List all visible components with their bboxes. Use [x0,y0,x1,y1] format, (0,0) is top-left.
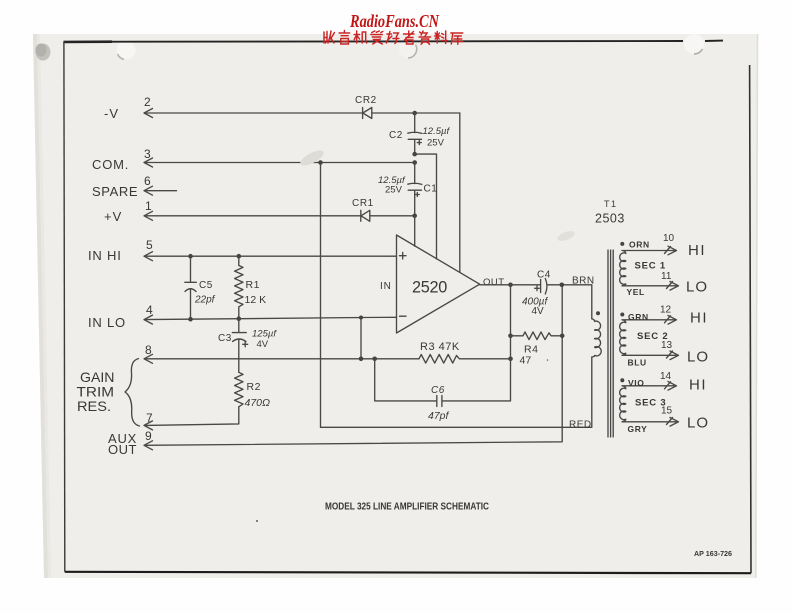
node AUX OUT terminal (pin 9) [108,429,153,457]
diode CR2 [355,95,377,119]
svg-text:AP 163-726: AP 163-726 [694,551,732,558]
wire SPARE stub [145,190,177,192]
svg-text:2503: 2503 [595,212,625,226]
node GAIN TRIM terminal (pin 8) [144,343,153,363]
watermark header Chinese subtitle (stylized strokes) [324,31,463,45]
smudge [298,147,326,168]
svg-text:C3: C3 [218,333,232,344]
junction C6 branch [372,357,377,362]
junction COM / down line [318,160,323,165]
svg-text:47pf: 47pf [428,410,450,422]
svg-text:HI: HI [688,242,706,259]
junction R4 left [508,334,513,339]
junction R3 / feedback vertical [508,357,513,362]
svg-text:-V: -V [104,106,119,121]
junction inverting node [359,357,364,362]
svg-text:COM.: COM. [92,157,129,172]
junction COM / C-stack [412,160,417,165]
op-amp U1 2520 [380,235,480,333]
svg-text:C4: C4 [537,270,551,281]
svg-text:+V: +V [104,209,122,224]
punch hole top-middle [399,40,417,58]
svg-text:CR2: CR2 [355,95,377,106]
svg-text:CR1: CR1 [352,198,374,209]
svg-text:C5: C5 [199,280,213,291]
svg-text:22pf: 22pf [194,295,216,306]
svg-text:12.5µf: 12.5µf [423,126,451,137]
junction IN LO / C5 [188,317,193,322]
resistor R4 [511,332,563,367]
svg-text:R1: R1 [246,279,260,291]
svg-text:GRN: GRN [628,312,649,322]
brace gain trim resistor [77,359,140,426]
wire COM rail [145,162,415,164]
svg-text:HI: HI [690,310,708,327]
border frame left [63,42,66,572]
transformer secondary SEC2 [620,305,709,368]
junction C4 / BRN / AUX [560,283,565,288]
svg-text:IN HI: IN HI [88,248,122,263]
svg-text:VIO: VIO [628,378,644,388]
svg-text:R3 47K: R3 47K [420,341,460,353]
svg-text:MODEL 325 LINE AMPLIFIER SCHEM: MODEL 325 LINE AMPLIFIER SCHEMATIC [325,502,489,513]
punch hole top-left [117,41,136,60]
svg-text:14: 14 [660,371,672,382]
transformer core [608,250,613,437]
node IN HI terminal (pin 5) [88,238,153,263]
svg-text:13: 13 [661,340,673,351]
capacitor C2 [389,113,450,154]
svg-text:C2: C2 [389,130,403,141]
svg-text:12: 12 [660,305,672,316]
border frame top [64,41,724,42]
node GAIN TRIM terminal (pin 7) [144,411,153,430]
svg-text:C1: C1 [424,184,438,195]
svg-text:11: 11 [661,271,672,282]
svg-text:C6: C6 [431,385,445,396]
wire RED return [321,357,592,427]
svg-text:LO: LO [687,349,709,366]
speck [256,520,258,522]
smudge [556,229,576,243]
wire +V feed to op-amp [414,216,416,246]
capacitor C4 [522,270,551,318]
svg-text:IN LO: IN LO [88,315,126,330]
junction IN LO / feedback [359,316,363,320]
junction C2 / COM branch [412,152,417,157]
svg-text:BRN: BRN [572,276,595,287]
resistor R3 [419,341,511,363]
svg-text:12 K: 12 K [245,294,267,306]
svg-text:BLU: BLU [628,358,647,368]
paper right edge [756,34,758,578]
svg-text:470Ω: 470Ω [245,397,271,409]
resistor R1 [235,256,267,319]
wire pin 7 to R2 [145,407,239,426]
watermark header RadioFans.CN [349,11,440,31]
svg-text:SPARE: SPARE [92,184,138,199]
svg-text:SEC 1: SEC 1 [635,261,666,272]
node -V terminal (pin 2) [104,95,153,121]
punch hole top-right [684,34,704,54]
svg-text:GRY: GRY [628,424,648,434]
capacitor C6 [375,359,511,422]
junction IN LO / R1 C3 [237,316,242,321]
svg-text:RED: RED [569,420,592,431]
border frame right [750,65,751,573]
wire feedback vertical [510,285,512,359]
svg-text:OUT: OUT [108,442,137,457]
svg-text:25V: 25V [427,138,445,149]
wire -V rail [145,112,460,114]
svg-text:2520: 2520 [412,279,447,297]
wire AUX OUT rail [145,285,562,446]
wire +V rail [145,215,415,217]
svg-text:T1: T1 [604,199,618,209]
transformer T1 2503 primary [592,319,601,357]
node IN LO terminal (pin 4) [88,303,153,330]
junction IN HI / R1 [237,254,242,259]
svg-text:R2: R2 [247,381,261,393]
svg-text:6: 6 [144,174,151,188]
speck [547,359,549,361]
polarity dot primary [596,311,600,315]
svg-text:2: 2 [144,95,151,109]
svg-text:47: 47 [520,355,532,367]
transformer secondary SEC3 [620,371,709,434]
svg-text:4V: 4V [532,306,545,317]
svg-text:15: 15 [661,406,673,417]
wire IN HI rail [145,255,397,257]
transformer secondary SEC1 [620,233,708,297]
wire feedback rail (pin 8) [145,358,419,360]
junction output / feedback [508,283,513,288]
junction R4 right [560,334,565,339]
wire COM vertical [320,163,322,428]
wire -V feed to op-amp [459,113,461,272]
node COM terminal (pin 3) [92,147,153,172]
junction IN HI / C5 [188,254,193,259]
svg-text:10: 10 [663,233,675,244]
svg-text:HI: HI [689,377,707,394]
svg-text:5: 5 [146,238,153,252]
svg-text:YEL: YEL [627,287,645,297]
svg-text:4V: 4V [257,339,269,350]
capacitor C1 [378,163,437,216]
resistor R2 [235,372,270,409]
wire COM branch to op-amp [415,154,437,259]
svg-text:1: 1 [145,199,152,213]
svg-text:OUT: OUT [483,277,505,288]
svg-text:RadioFans.CN: RadioFans.CN [349,11,440,31]
svg-text:25V: 25V [385,185,403,196]
svg-text:IN: IN [380,281,392,292]
svg-text:LO: LO [686,279,708,296]
svg-text:125µf: 125µf [252,329,277,340]
capacitor C5 [185,256,216,319]
wire output line [480,285,592,319]
border frame bottom [65,572,751,573]
junction +V / C-stack [412,214,417,219]
svg-text:LO: LO [687,415,709,432]
diode CR1 [352,198,374,221]
node +V terminal (pin 1) [104,199,153,224]
wire IN LO rail to inverting input [145,317,397,359]
node SPARE terminal (pin 6) [92,174,153,199]
svg-text:ORN: ORN [629,240,650,250]
junction -V / C2 [412,111,417,116]
punch hole left edge [36,44,51,61]
svg-text:RES.: RES. [77,398,111,414]
capacitor C3 [218,319,277,373]
